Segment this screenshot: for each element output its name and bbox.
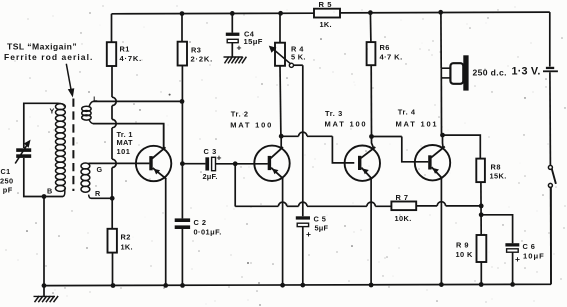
svg-text:R1: R1 (120, 45, 130, 54)
node rail-R3 junction (180, 11, 185, 16)
svg-text:C 2: C 2 (194, 218, 207, 227)
svg-text:C 5: C 5 (314, 214, 327, 223)
svg-text:+: + (217, 152, 222, 162)
svg-text:MAT 100: MAT 100 (325, 119, 368, 128)
wire aerial top (Y) (24, 103, 58, 148)
wire G-coil top to Tr1 base (90, 162, 149, 164)
node bottom rail junction C2 (180, 283, 185, 288)
wire C5 to bottom rail (302, 227, 304, 286)
wire pointer arrow from label to rod (66, 64, 71, 91)
transistor Q3 Tr.3 MAT 100 (345, 146, 380, 181)
wire Tr2 collector node to Tr3 base (hop over C5 line) (281, 135, 298, 137)
wire Tr3 emitter to bottom rail (370, 178, 372, 285)
node bottom rail junction Tr2 emitter (280, 283, 285, 288)
battery 1.3V cell (546, 67, 554, 69)
wire Tr3 collector riser (372, 137, 374, 149)
wire C3 to Tr2 base (216, 163, 268, 165)
svg-text:10 K: 10 K (456, 250, 473, 259)
capacitor C1 arrow (15, 144, 27, 163)
node rail-speaker junction (438, 10, 443, 15)
node bottom rail junction C1/aerial (42, 283, 47, 288)
svg-text:2μF.: 2μF. (203, 172, 218, 181)
svg-text:4·7 K.: 4·7 K. (380, 53, 403, 62)
transistor Q1 Tr.1 MAT 101 (136, 146, 171, 181)
wire Tr3 collector node to Tr4 base (372, 136, 402, 138)
resistor R1 (111, 14, 113, 42)
wire R2 to bottom rail (112, 253, 114, 286)
resistor R5 (314, 9, 340, 18)
node Tr2 collector junction (279, 134, 284, 139)
wire top supply rail right of R5 (340, 11, 550, 14)
wire Tr2 emitter to bottom rail (282, 178, 284, 285)
node Tr2 base junction (233, 161, 238, 166)
svg-text:15μF: 15μF (244, 37, 263, 46)
svg-text:C 6: C 6 (523, 242, 536, 251)
capacitor C3 (182, 163, 205, 165)
node R-wire junction (110, 196, 115, 201)
transistor Q2 Tr.2 MAT 100 (254, 146, 289, 181)
ground symbol bottom left (43, 286, 45, 297)
node C6 tap junction (479, 212, 484, 217)
node Tr3 collector junction (369, 134, 374, 139)
svg-text:1K.: 1K. (121, 243, 133, 252)
svg-text:R 7: R 7 (396, 193, 409, 202)
svg-text:1·3 V.: 1·3 V. (512, 65, 541, 77)
inductor aerial coil winding (56, 104, 66, 110)
node Tr4 collector junction (440, 133, 445, 138)
node bottom rail junction Tr4 emitter (439, 282, 444, 287)
svg-text:C 3: C 3 (204, 147, 217, 156)
resistor R9 (477, 235, 487, 262)
speaker 250 ohm earpiece (441, 67, 450, 69)
capacitor C5 (296, 216, 310, 219)
wire rail to speaker/collector line (440, 12, 442, 68)
svg-text:R2: R2 (121, 233, 131, 242)
wire Tr4 collector to R8 top (443, 135, 481, 159)
svg-text:Y: Y (50, 107, 55, 116)
svg-text:+: + (306, 229, 311, 239)
svg-text:Tr. 4: Tr. 4 (398, 107, 416, 116)
svg-text:15K.: 15K. (490, 172, 507, 181)
svg-text:4·7K.: 4·7K. (120, 54, 143, 63)
svg-text:R8: R8 (491, 163, 501, 172)
node rail-C4 junction (230, 11, 235, 16)
node L-wire to R3 line junction (180, 99, 185, 104)
inductor G-R coil (lower secondary) (81, 163, 90, 169)
svg-text:5μF: 5μF (315, 223, 329, 232)
svg-text:250 d.c.: 250 d.c. (473, 68, 507, 78)
capacitor C1 plates (variable) (16, 148, 31, 152)
wire L-coil bottom to Tr1 collector (93, 124, 164, 149)
switch S1 (548, 165, 552, 169)
wire L-coil top to R3 line (93, 100, 182, 102)
wire top supply rail left of R5 (112, 12, 315, 15)
wire battery to switch (549, 72, 552, 165)
svg-text:Tr. 2: Tr. 2 (231, 109, 249, 118)
svg-text:B: B (47, 187, 52, 196)
svg-text:R6: R6 (380, 43, 390, 52)
svg-text:R 5: R 5 (319, 0, 333, 9)
wire Tr4 collector riser (442, 135, 445, 147)
wire C2 to bottom rail (181, 229, 183, 285)
wire R-coil bottom to R2 line (91, 197, 112, 199)
resistor R8 (476, 159, 485, 183)
wire R6 to Tr3 collector node (370, 65, 372, 136)
wire tap to C6 (481, 215, 512, 243)
svg-text:Ferrite rod aerial.: Ferrite rod aerial. (4, 52, 93, 62)
wire C4 to ground (231, 43, 233, 57)
node B-wire tee to ground rail (42, 194, 47, 199)
wire Tr4 emitter to bottom rail (440, 178, 442, 285)
wire R1 down with hops over coil wires and base wire (111, 66, 113, 97)
svg-text:Tr. 3: Tr. 3 (325, 109, 343, 118)
node R4 wiper terminal (289, 63, 293, 67)
resistor R7 (391, 202, 416, 211)
svg-text:+: + (515, 254, 520, 264)
wire C1 bottom to aerial coil (B) (24, 158, 63, 197)
node rail-R4 junction (278, 11, 283, 16)
node bottom rail junction C6 (510, 282, 515, 287)
node bottom rail junction Tr3 emitter (369, 283, 374, 288)
wire base node down and across to R7 (hops) (234, 164, 236, 207)
svg-text:0·01μF.: 0·01μF. (194, 228, 222, 237)
capacitor C2 (175, 218, 190, 222)
node C3 left junction (180, 161, 185, 166)
wire bottom-right riser to switch (550, 187, 552, 284)
node rail-R6 junction (368, 10, 373, 15)
svg-text:+: + (237, 43, 242, 53)
node bottom rail junction R2 (111, 283, 116, 288)
wire R8 down to junctions (480, 182, 482, 235)
wire tee down to bottom rail (43, 197, 45, 286)
wire C6 to bottom rail (512, 252, 514, 284)
resistor R6 (369, 13, 372, 42)
wire R4 bottom to Tr2 collector node (279, 66, 282, 136)
node bottom rail junction C5 (300, 283, 305, 288)
svg-text:R: R (95, 189, 101, 198)
svg-text:R 9: R 9 (456, 241, 469, 250)
capacitor C4 (231, 13, 233, 32)
inductor L coil (top secondary) (82, 106, 91, 111)
wire R9 to bottom rail (480, 262, 482, 285)
svg-text:2·2K.: 2·2K. (191, 55, 214, 64)
wire down to C2 (181, 164, 183, 219)
svg-text:R3: R3 (191, 46, 201, 55)
capacitor C6 (505, 243, 519, 246)
wire right battery drop (549, 12, 551, 66)
wire Tr1 collector riser (163, 124, 165, 149)
node R7/R8 junction (479, 204, 484, 209)
svg-text:MAT 101: MAT 101 (396, 120, 439, 129)
wire R3 down to C3 node (181, 66, 183, 164)
svg-text:10μF: 10μF (523, 251, 545, 260)
transistor Q4 Tr.4 MAT 101 (415, 145, 450, 180)
wire wiper line down through hops to C5 (302, 65, 304, 216)
resistor R2 (111, 198, 113, 229)
svg-text:G: G (97, 165, 103, 174)
wire R4 wiper to C5 line (294, 64, 303, 66)
potentiometer R4 (279, 13, 281, 42)
svg-text:5 K.: 5 K. (291, 53, 306, 62)
wire Tr2 collector riser (280, 136, 282, 148)
ferrite rod dashed line (72, 99, 74, 192)
node bottom rail junction Tr1 emitter (163, 283, 168, 288)
svg-text:C1: C1 (1, 167, 11, 176)
svg-text:TSL “Maxigain”: TSL “Maxigain” (7, 41, 77, 51)
svg-text:MAT 100: MAT 100 (230, 120, 273, 129)
svg-text:pF: pF (3, 185, 13, 194)
resistor R3 (181, 14, 183, 42)
wire Tr1 emitter to bottom rail (165, 179, 167, 286)
wire R7 right to R8/R9 node (hop over Tr4 emitter) (416, 205, 437, 207)
svg-text:1K.: 1K. (320, 20, 332, 29)
wire switch to bottom rail (550, 187, 552, 284)
svg-text:101: 101 (117, 147, 131, 156)
svg-text:MAT: MAT (117, 138, 134, 147)
svg-text:250: 250 (0, 176, 14, 185)
node bottom rail junction R9 (479, 282, 484, 287)
wire bottom ground rail (44, 284, 551, 285)
svg-text:10K.: 10K. (395, 214, 412, 223)
ground symbol under C4 (224, 56, 243, 58)
